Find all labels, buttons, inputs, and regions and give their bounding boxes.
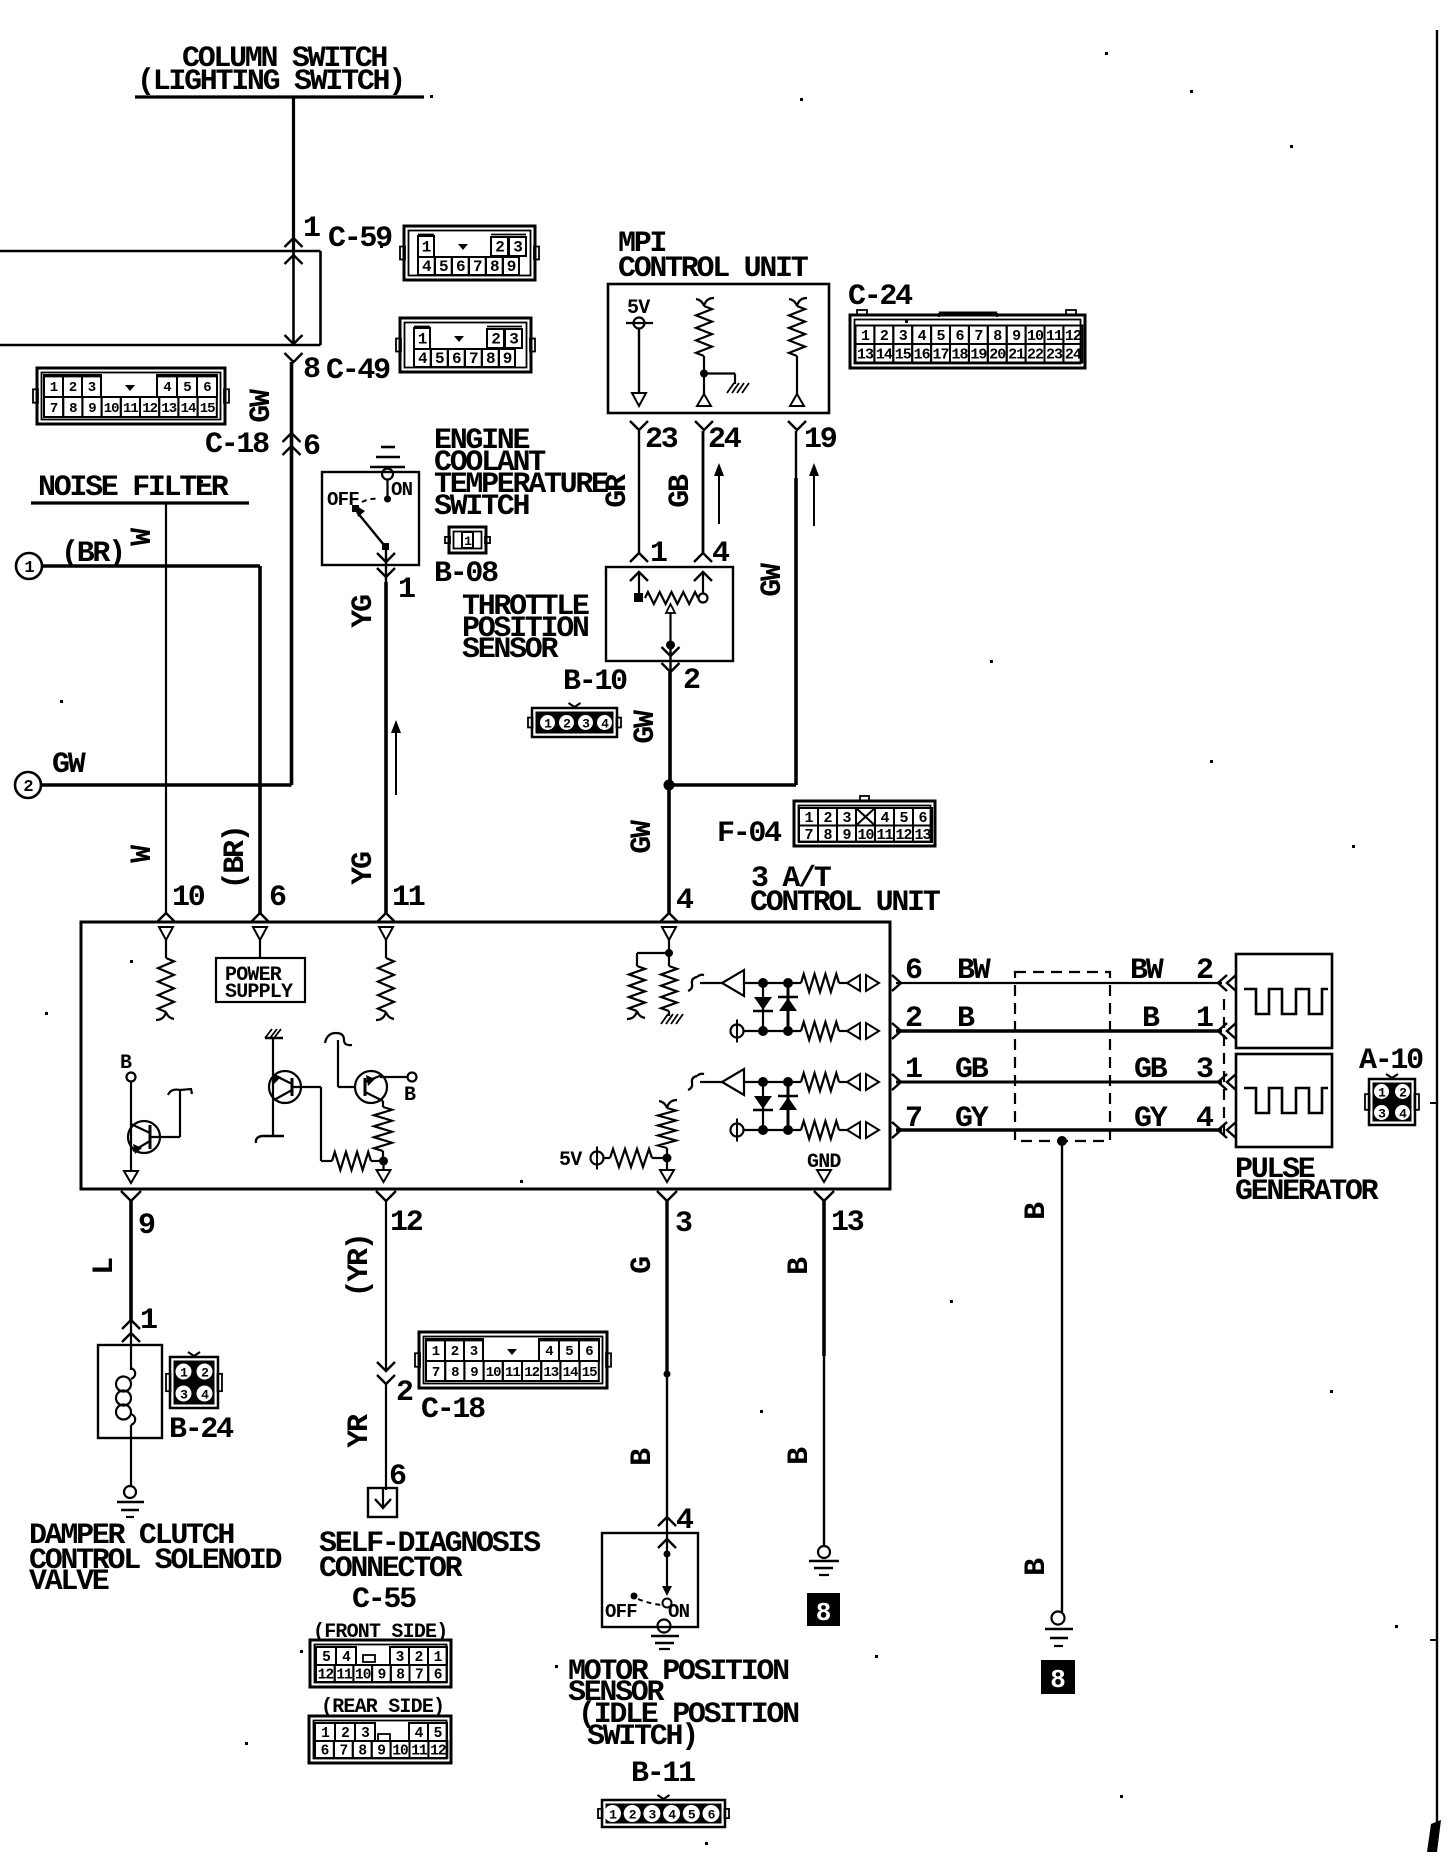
wire GW junction horizontal: [669, 783, 796, 787]
svg-text:B: B: [1020, 1202, 1054, 1220]
pin labels 23 24 19: [645, 423, 837, 457]
connector F-04 pin view: [794, 796, 935, 846]
junction dot motor sensor wire: [664, 1371, 671, 1378]
svg-text:9: 9: [842, 827, 851, 844]
ground reference 8 right: [1041, 1660, 1075, 1695]
svg-text:8: 8: [486, 350, 495, 368]
label W upper: [126, 528, 160, 546]
svg-text:1: 1: [544, 717, 552, 732]
wire from column switch down to C-59 pin 1: [292, 97, 295, 251]
svg-text:SWITCH: SWITCH: [434, 490, 529, 524]
svg-text:13: 13: [831, 1206, 864, 1240]
triangle MPI pin 24: [697, 377, 711, 406]
svg-text:10: 10: [104, 401, 119, 417]
svg-text:10: 10: [392, 1744, 408, 1760]
node B-24 label: [169, 1413, 234, 1447]
pin 2 label C-18: [396, 1376, 413, 1410]
svg-text:11: 11: [876, 827, 893, 844]
svg-text:4: 4: [601, 717, 609, 732]
svg-text:1: 1: [303, 212, 320, 246]
node C-18 label bottom: [421, 1393, 485, 1427]
svg-text:15: 15: [895, 346, 912, 363]
svg-text:3: 3: [582, 717, 590, 732]
svg-text:CONNECTOR: CONNECTOR: [319, 1552, 463, 1586]
svg-text:20: 20: [989, 346, 1006, 363]
dashed connector box: [1015, 972, 1110, 1141]
svg-text:1: 1: [432, 1344, 440, 1360]
svg-text:GW: GW: [52, 748, 86, 782]
label L: [88, 1258, 122, 1275]
svg-text:5: 5: [937, 328, 946, 345]
svg-text:(BR): (BR): [219, 827, 253, 890]
label B lower: [1020, 1558, 1054, 1576]
node C-49 label: [326, 354, 390, 388]
connector C-59 pin view: [400, 226, 539, 280]
svg-text:12: 12: [318, 1668, 334, 1684]
pin 4 label AT unit: [676, 884, 694, 918]
svg-text:C-49: C-49: [326, 354, 390, 388]
svg-text:2: 2: [495, 239, 504, 257]
wire (BR) vertical to pin 6: [258, 566, 262, 913]
node B-08 label: [434, 557, 498, 591]
node B-11 label: [631, 1757, 695, 1791]
pin 1 label: [303, 212, 320, 246]
svg-text:GW: GW: [245, 389, 279, 423]
svg-text:B-24: B-24: [169, 1413, 234, 1447]
svg-text:3: 3: [88, 380, 96, 396]
svg-text:7: 7: [50, 401, 58, 417]
wire GW TPS pin 2 down: [668, 672, 672, 785]
svg-text:5: 5: [322, 1650, 330, 1666]
pin 2 label TPS: [683, 664, 700, 698]
pin 6 label C-55: [389, 1460, 406, 1494]
svg-text:7: 7: [415, 1668, 423, 1684]
transistor Q3: [338, 1071, 387, 1103]
node C-59 label: [328, 222, 392, 256]
svg-text:B: B: [1020, 1558, 1054, 1576]
connector C-18 pin view (bottom): [415, 1332, 611, 1388]
svg-text:6: 6: [452, 350, 461, 368]
node MOTOR POSITION SENSOR label: [568, 1655, 799, 1754]
AT right pin chevrons: [892, 975, 901, 1138]
node ENGINE COOLANT TEMPERATURE SWITCH label: [434, 424, 608, 524]
svg-text:B: B: [626, 1448, 660, 1466]
svg-text:9: 9: [378, 1668, 386, 1684]
node A-10 label: [1359, 1044, 1423, 1078]
label B pin13 lower: [783, 1447, 817, 1465]
svg-text:1: 1: [434, 1650, 443, 1666]
svg-text:2: 2: [629, 1808, 637, 1823]
column switch body box: [294, 251, 321, 345]
pulse generator coil 1: [1236, 954, 1332, 1048]
wire YG down to pin 11: [384, 582, 388, 913]
wire junction to chassis in MPI: [700, 356, 749, 393]
svg-text:3: 3: [180, 1388, 188, 1403]
node MPI CONTROL UNIT label: [618, 227, 809, 286]
connector C-24 pin view: [850, 310, 1085, 368]
svg-text:1: 1: [140, 1304, 157, 1338]
resistor sense pull: [658, 1100, 677, 1158]
triangle AT pin 3: [660, 1158, 674, 1182]
triangle MPI pin 19: [790, 356, 804, 406]
svg-text:5: 5: [439, 258, 448, 276]
svg-text:7: 7: [432, 1365, 440, 1381]
label GW lower: [626, 820, 660, 854]
svg-text:8: 8: [1050, 1665, 1066, 1695]
wire GW down to AT pin 4: [667, 785, 671, 913]
svg-text:1: 1: [24, 559, 34, 578]
label B pin13 upper: [783, 1257, 817, 1275]
svg-text:4: 4: [163, 380, 171, 396]
svg-text:6: 6: [321, 1744, 329, 1760]
label GW at terminal 2: [52, 748, 86, 782]
svg-text:C-24: C-24: [848, 280, 913, 314]
svg-text:4: 4: [545, 1344, 553, 1360]
node C-18 label: [205, 428, 269, 462]
svg-text:GW: GW: [629, 710, 663, 744]
node 3 A/T CONTROL UNIT label: [750, 862, 941, 920]
svg-text:2: 2: [69, 380, 77, 396]
node DAMPER CLUTCH CONTROL SOLENOID VALVE label: [29, 1519, 282, 1599]
svg-text:6: 6: [434, 1668, 442, 1684]
terminal B Q3: [380, 1073, 417, 1108]
terminal B Q1: [120, 1052, 136, 1082]
labels OFF ON idle switch: [605, 1601, 690, 1623]
wire to power supply: [259, 940, 261, 958]
crossing marker B-24 pin 1: [122, 1320, 140, 1342]
svg-text:1: 1: [422, 239, 431, 257]
svg-text:2: 2: [683, 664, 700, 698]
connector A-10 pin view: [1365, 1074, 1419, 1125]
svg-text:2: 2: [1196, 954, 1213, 988]
svg-text:15: 15: [582, 1365, 597, 1381]
svg-text:23: 23: [645, 423, 678, 457]
svg-text:ON: ON: [391, 479, 413, 501]
label YG lower: [347, 852, 381, 885]
svg-text:5V: 5V: [559, 1149, 582, 1172]
svg-text:VALVE: VALVE: [29, 1565, 109, 1599]
wire GW horizontal to terminal 2: [42, 783, 292, 786]
label YG upper: [347, 595, 381, 628]
connector B-24 pin view: [166, 1352, 222, 1408]
connector C-55 rear side pin view: [309, 1716, 451, 1763]
node B-10 label: [563, 665, 627, 699]
svg-text:8: 8: [490, 258, 499, 276]
chassis hash Q2: [265, 1029, 283, 1038]
wire GR MPI pin 23 to TPS pin 1: [638, 431, 640, 553]
triangle Q1 out: [124, 1171, 138, 1183]
pin 6 label AT unit: [269, 881, 286, 915]
svg-text:12: 12: [524, 1365, 539, 1381]
pin 10 label: [172, 881, 205, 915]
wire to MPI pin 23 triangle: [632, 329, 646, 406]
svg-text:B: B: [404, 1084, 416, 1107]
damper clutch solenoid box B-24: [98, 1345, 162, 1438]
pin labels 1 4 TPS: [650, 537, 730, 571]
resistor MPI pull-up 2: [789, 298, 807, 356]
labels ON OFF: [327, 479, 413, 511]
svg-text:CONTROL UNIT: CONTROL UNIT: [618, 252, 809, 286]
label (BR) vertical: [219, 827, 253, 890]
idle switch wire: [662, 1519, 672, 1608]
switch dashed arc: [362, 499, 378, 502]
svg-text:11: 11: [392, 881, 425, 915]
svg-text:GW: GW: [756, 563, 790, 597]
ground symbol motor sensor: [651, 1620, 679, 1650]
svg-text:5: 5: [434, 1726, 442, 1742]
resistor MPI pull-up 1: [696, 298, 714, 356]
5V source AT: [559, 1147, 604, 1173]
svg-text:F-04: F-04: [717, 817, 782, 851]
svg-text:14: 14: [876, 346, 893, 363]
GND triangle pin 13: [807, 1151, 841, 1182]
svg-text:5: 5: [688, 1808, 696, 1823]
ground symbol right: [1045, 1612, 1073, 1647]
label GW pin 19: [756, 563, 790, 597]
svg-text:5: 5: [899, 810, 908, 827]
svg-text:4: 4: [201, 1388, 209, 1403]
svg-text:7: 7: [473, 258, 482, 276]
svg-text:1: 1: [1196, 1002, 1213, 1036]
pin 4 label motor sensor: [676, 1504, 694, 1538]
wire L pin 9 down: [129, 1201, 133, 1320]
connector B-10 pin view: [528, 703, 621, 737]
svg-text:6: 6: [918, 810, 927, 827]
engine coolant temperature switch B-08 box: [322, 472, 419, 565]
svg-text:B-11: B-11: [631, 1757, 695, 1791]
svg-text:4: 4: [422, 258, 432, 276]
svg-text:13: 13: [161, 401, 176, 417]
transistor Q1: [128, 1082, 160, 1171]
svg-text:YR: YR: [343, 1414, 377, 1448]
switch lever: [352, 505, 389, 550]
TPS terminal stubs: [639, 572, 703, 594]
svg-text:2: 2: [823, 810, 832, 827]
svg-text:8: 8: [303, 353, 320, 387]
label GW: [245, 389, 279, 423]
svg-text:4: 4: [1399, 1107, 1407, 1122]
svg-text:3: 3: [899, 328, 908, 345]
svg-text:10: 10: [172, 881, 205, 915]
wire GB MPI pin 24 to TPS pin 4: [702, 431, 705, 553]
svg-text:C-18: C-18: [421, 1393, 485, 1427]
svg-text:GENERATOR: GENERATOR: [1235, 1175, 1379, 1209]
crossing marker C-18 pin 2: [377, 1362, 395, 1384]
svg-text:2: 2: [451, 1344, 459, 1360]
svg-text:3: 3: [1196, 1053, 1213, 1087]
svg-text:(LIGHTING SWITCH): (LIGHTING SWITCH): [137, 65, 404, 99]
svg-text:2: 2: [880, 328, 889, 345]
TPS wiper to pin 2: [662, 641, 680, 673]
svg-text:C-18: C-18: [205, 428, 269, 462]
ground reference 8 left: [807, 1593, 840, 1628]
svg-text:12: 12: [895, 827, 912, 844]
TPS chevrons inside: [630, 572, 712, 581]
pin 1 label B-24: [140, 1304, 157, 1338]
svg-text:23: 23: [1046, 346, 1063, 363]
chevron above motor sensor: [658, 1517, 676, 1526]
resistor R-Q2: [332, 1152, 371, 1170]
label FRONT SIDE: [313, 1621, 447, 1644]
power supply box: [216, 958, 305, 1004]
svg-text:10: 10: [486, 1365, 501, 1381]
svg-text:10: 10: [857, 827, 874, 844]
wire B pulse generator shield to ground: [1061, 1141, 1063, 1612]
svg-text:4: 4: [415, 1726, 424, 1742]
svg-text:OFF: OFF: [605, 1601, 637, 1623]
connector B-11 pin view: [598, 1795, 729, 1827]
svg-text:2: 2: [341, 1726, 349, 1742]
connector C-55 front side pin view: [310, 1640, 451, 1687]
label 5V MPI: [627, 297, 650, 320]
svg-text:YG: YG: [347, 595, 381, 628]
connector C-18 pin view (top): [33, 368, 229, 424]
wire (BR) horizontal: [42, 564, 260, 568]
svg-text:B: B: [783, 1257, 817, 1275]
svg-text:10: 10: [1027, 328, 1044, 345]
wire B pin 13 down: [822, 1201, 826, 1546]
Q3 base hook: [325, 1033, 352, 1087]
svg-text:6: 6: [456, 258, 465, 276]
svg-text:(YR): (YR): [343, 1235, 377, 1298]
ground symbol solenoid: [117, 1486, 144, 1517]
svg-text:9: 9: [88, 401, 96, 417]
svg-text:19: 19: [804, 423, 837, 457]
connector crossing marker C-49: [285, 335, 303, 362]
self-diagnosis connector symbol: [368, 1488, 397, 1517]
svg-text:16: 16: [914, 346, 931, 363]
svg-text:11: 11: [336, 1668, 353, 1684]
svg-text:SENSOR: SENSOR: [462, 633, 559, 667]
TPS connector chevrons above: [630, 553, 712, 562]
wire out of coolant switch: [377, 550, 395, 582]
svg-text:SWITCH): SWITCH): [587, 1720, 697, 1754]
double chevrons at pulse generator: [1218, 975, 1236, 1138]
svg-text:SUPPLY: SUPPLY: [225, 981, 293, 1004]
svg-text:4: 4: [1196, 1102, 1214, 1136]
svg-text:C-59: C-59: [328, 222, 392, 256]
label W lower: [126, 845, 160, 863]
svg-text:13: 13: [914, 827, 931, 844]
svg-text:8: 8: [823, 827, 832, 844]
svg-text:1: 1: [418, 331, 427, 349]
amplifier and diode block pulse A: [688, 970, 879, 1043]
svg-text:3: 3: [842, 810, 851, 827]
svg-text:YG: YG: [347, 852, 381, 885]
wire solenoid to ground: [130, 1438, 132, 1487]
resistor Q3 emitter: [374, 1101, 392, 1161]
svg-text:7: 7: [339, 1744, 347, 1760]
wire B pin 2 to pulse generator: [896, 1002, 1222, 1036]
source symbol 5V: [626, 318, 653, 329]
svg-text:9: 9: [503, 350, 512, 368]
svg-text:3: 3: [361, 1726, 369, 1742]
svg-text:B: B: [783, 1447, 817, 1465]
MPI control unit box: [608, 284, 829, 413]
solenoid coil: [116, 1368, 135, 1438]
pin 8 label: [303, 353, 320, 387]
pin 11 label: [392, 881, 425, 915]
terminal circle coolant switch: [382, 469, 393, 480]
svg-text:9: 9: [377, 1744, 385, 1760]
svg-text:17: 17: [933, 346, 949, 363]
wire YR to self-diagnosis: [385, 1384, 387, 1490]
wire inside switch: [384, 480, 391, 503]
wire into solenoid: [130, 1320, 132, 1370]
svg-text:3: 3: [648, 1808, 656, 1823]
svg-text:24: 24: [1065, 346, 1082, 363]
junction B ground wire: [1057, 1136, 1067, 1146]
svg-text:6: 6: [585, 1344, 593, 1360]
svg-text:B-10: B-10: [563, 665, 627, 699]
svg-text:5: 5: [565, 1344, 573, 1360]
svg-text:4: 4: [676, 884, 694, 918]
svg-text:C-55: C-55: [352, 1583, 416, 1617]
svg-text:8: 8: [69, 401, 77, 417]
wire BW pin 6 to pulse generator: [896, 954, 1222, 988]
connector B-08 pin view: [445, 527, 490, 553]
svg-text:ON: ON: [668, 1601, 690, 1623]
wire GW from C-49 pin 8 down: [290, 362, 294, 785]
svg-text:21: 21: [1008, 346, 1025, 363]
svg-text:10: 10: [355, 1668, 371, 1684]
throttle position sensor box: [606, 567, 733, 661]
wire Q2 base to resistor: [292, 1087, 332, 1161]
svg-text:3: 3: [396, 1650, 404, 1666]
svg-text:L: L: [88, 1258, 122, 1275]
svg-text:1: 1: [398, 573, 415, 607]
svg-text:2: 2: [396, 1376, 413, 1410]
TPS terminals: [634, 593, 708, 603]
svg-text:1: 1: [861, 328, 870, 345]
svg-text:1: 1: [804, 810, 813, 827]
label GW TPS: [629, 710, 663, 744]
arrow up GB: [714, 463, 724, 524]
border line right: [1427, 30, 1441, 1852]
svg-text:15: 15: [200, 401, 215, 417]
pin 1 label coolant switch: [398, 573, 415, 607]
potentiometer track TPS: [645, 592, 698, 604]
svg-text:W: W: [126, 528, 160, 546]
svg-text:11: 11: [411, 1744, 428, 1760]
svg-text:11: 11: [1046, 328, 1063, 345]
node COLUMN SWITCH (LIGHTING SWITCH) label: [135, 42, 424, 99]
ground symbol above coolant switch: [370, 447, 405, 467]
svg-text:2: 2: [491, 331, 500, 349]
svg-text:1: 1: [321, 1726, 330, 1742]
svg-text:6: 6: [708, 1808, 716, 1823]
node terminal 2: [15, 772, 41, 798]
svg-text:8: 8: [816, 1598, 832, 1628]
svg-text:4: 4: [668, 1808, 676, 1823]
svg-text:3: 3: [513, 239, 522, 257]
node terminal 1: [16, 553, 42, 579]
svg-text:12: 12: [1065, 328, 1082, 345]
label REAR SIDE: [321, 1696, 444, 1719]
label YR: [343, 1414, 377, 1448]
svg-text:8: 8: [993, 328, 1002, 345]
svg-text:G: G: [626, 1257, 660, 1274]
svg-text:GW: GW: [626, 820, 660, 854]
svg-text:19: 19: [970, 346, 987, 363]
svg-text:2: 2: [201, 1366, 209, 1381]
svg-text:1: 1: [609, 1808, 617, 1823]
connector C-49 pin view: [396, 318, 535, 372]
svg-text:8: 8: [396, 1668, 404, 1684]
Q2 emitter rail: [256, 1136, 284, 1143]
svg-text:1: 1: [1378, 1086, 1386, 1101]
connector crossing marker C-59: [285, 238, 303, 264]
